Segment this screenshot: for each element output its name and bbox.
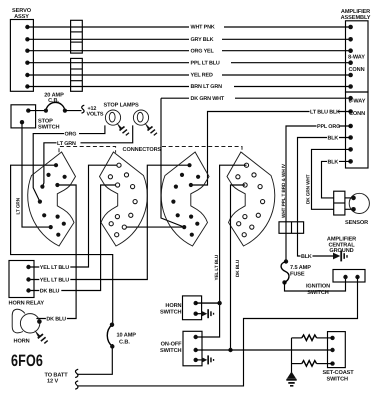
stop switch pin 1 <box>26 108 30 112</box>
svg-text:CONNECTORS: CONNECTORS <box>123 147 162 153</box>
circuit breaker CB1 20 AMP <box>44 93 67 113</box>
horn switch ground <box>196 309 215 318</box>
svg-text:IGNITION: IGNITION <box>306 284 330 290</box>
svg-text:YEL RED: YEL RED <box>191 73 213 79</box>
svg-text:CONN: CONN <box>348 67 364 73</box>
wire BLK: 6-way pin6 to sensor connector <box>322 158 351 198</box>
svg-text:SWITCH: SWITCH <box>307 290 329 296</box>
dashed leader line to CONNECTORS label (right segment) <box>162 147 242 153</box>
on-off switch box <box>160 331 202 366</box>
amplifier 8-way pin 1 <box>348 25 353 30</box>
junction: DK BLU to switch wire <box>228 348 232 352</box>
svg-text:SET-COAST: SET-COAST <box>323 370 355 376</box>
svg-text:DK GRN WHT: DK GRN WHT <box>191 96 225 102</box>
wire BRN LT GRN row6 <box>27 83 350 91</box>
servo pin 5 <box>25 73 29 77</box>
wire ignition switch pin2 to battery feed <box>78 277 358 386</box>
wire BLK: 6-way pin4 to amplifier central ground <box>298 134 351 260</box>
svg-text:8-WAY: 8-WAY <box>348 54 365 60</box>
svg-text:SWITCH: SWITCH <box>38 124 60 130</box>
set-coast switch box <box>323 332 355 383</box>
wire LT GRN: to stop lamp 2, branch down to connector <box>42 125 132 186</box>
battery feed squiggle (upper) <box>75 369 78 377</box>
wire horn circuit: connector 1 pin to horn <box>36 185 76 323</box>
svg-text:LT GRN: LT GRN <box>15 197 20 214</box>
connector C4 pins (sockets) <box>236 163 265 237</box>
stop lamp 1 ground <box>117 123 130 136</box>
amplifier 8-way pin 3 <box>348 48 353 53</box>
svg-text:ASSY: ASSY <box>14 14 29 20</box>
svg-text:PPL LT BLU: PPL LT BLU <box>191 60 220 66</box>
resistor R1 (set) <box>292 335 333 341</box>
svg-text:LT GRN: LT GRN <box>57 141 76 147</box>
wire set-coast ground bus <box>291 338 293 374</box>
amplifier 8-way pin 5 <box>348 73 353 78</box>
wire from left loop to connector 1 top pin (servo feed) <box>11 165 113 325</box>
wire DK GRN WHT branch down to connector 3 <box>161 98 184 227</box>
svg-text:DK BLU: DK BLU <box>46 317 66 323</box>
mid in-line connector (2 cells) on PPL ORG / BLK wires <box>279 222 304 234</box>
horn ground <box>35 330 48 343</box>
stop switch pin 2 <box>20 120 24 124</box>
resistor R2 (coast) <box>292 361 333 367</box>
svg-text:DK BLU: DK BLU <box>40 289 60 295</box>
connector C2 (steering column, female) <box>100 152 148 246</box>
svg-text:YEL LT BLU: YEL LT BLU <box>40 265 69 271</box>
amplifier 8-way pin 4 <box>348 60 353 65</box>
svg-text:YEL LT BLU: YEL LT BLU <box>40 278 69 284</box>
amplifier 6-way pin 5 <box>348 147 353 152</box>
set-coast ground <box>286 372 296 387</box>
ignition switch box <box>306 270 365 296</box>
svg-text:BLK: BLK <box>328 159 339 165</box>
servo pin 4 <box>25 61 29 65</box>
connector C3 (male) <box>161 152 209 246</box>
horn <box>12 309 42 344</box>
servo assembly box <box>10 8 33 91</box>
servo pin 1 <box>25 25 29 29</box>
svg-text:SWITCH: SWITCH <box>160 309 182 315</box>
svg-text:ORG: ORG <box>65 132 77 138</box>
amplifier 6-way pin 3 <box>348 124 353 129</box>
servo pin 2 <box>25 37 29 41</box>
svg-text:PPL ORG: PPL ORG <box>317 124 340 130</box>
wire ORG YEL row3 <box>27 47 350 55</box>
amplifier 6-way pin 2 <box>348 109 353 114</box>
amplifier 6-way pin 1 <box>348 96 353 101</box>
svg-text:STOP LAMPS: STOP LAMPS <box>104 103 140 109</box>
servo pin 6 <box>25 84 29 88</box>
wire on-off switch pin2 to set-coast switch <box>196 349 333 351</box>
wire stop switch to circuit breaker <box>28 110 46 112</box>
wire PPL LT BLU row4 <box>27 59 350 67</box>
wire 10 AMP CB to battery feed (upper) <box>78 325 113 375</box>
+12 VOLTS source tap <box>82 105 104 117</box>
amplifier 6-way pin 4 <box>348 135 353 140</box>
svg-text:HORN: HORN <box>165 303 181 309</box>
junction: horn switch tap <box>217 301 221 305</box>
in-line connector block 2 (3 cells) <box>71 58 83 91</box>
stop lamp 2 ground <box>145 123 158 136</box>
svg-text:BLK: BLK <box>301 254 312 260</box>
svg-text:DK BLU: DK BLU <box>235 259 240 277</box>
TO BATT label <box>45 373 69 385</box>
svg-text:7.5 AMP: 7.5 AMP <box>290 265 311 271</box>
svg-text:SWITCH: SWITCH <box>327 376 349 382</box>
wire YEL RED row5 <box>27 71 350 79</box>
svg-text:C.B.: C.B. <box>119 339 130 345</box>
amplifier 6-way pin 6 <box>348 159 353 164</box>
circuit breaker CB2 10 AMP <box>104 323 136 349</box>
connector C3 pins <box>171 163 200 237</box>
amplifier 8-way pin 2 <box>348 37 353 42</box>
amplifier 8-way pin 6 <box>348 84 353 89</box>
svg-text:12 V: 12 V <box>47 379 58 385</box>
battery feed squiggle (lower) <box>75 381 78 389</box>
stop lamp 1 <box>105 110 120 125</box>
svg-text:DK GRN WHT: DK GRN WHT <box>306 174 311 204</box>
horn switch box <box>160 296 202 320</box>
wire DK BLU: horn relay pin3 to connector 2 ring <box>29 185 118 295</box>
svg-text:WHT PNK: WHT PNK <box>191 25 215 31</box>
svg-text:YEL LT BLU: YEL LT BLU <box>214 254 219 280</box>
svg-text:WHT PPL T BRD & WH IV: WHT PPL T BRD & WH IV <box>281 163 286 218</box>
wire fuse to ignition switch pin1 <box>285 277 346 291</box>
svg-text:HORN: HORN <box>14 338 30 344</box>
svg-text:6FO6: 6FO6 <box>11 352 43 370</box>
wire LT GRN from stop switch down to connector 1 <box>13 122 50 227</box>
connector C1 pins <box>38 163 67 237</box>
dashed leader line to CONNECTORS label (left segment) <box>59 147 162 154</box>
wire YEL LT BLU: horn relay pin1 to connector 2 ring <box>29 165 119 271</box>
wire DK GRN WHT row7 <box>161 94 351 102</box>
wire sensor connector to sensor pin 1 <box>345 197 354 199</box>
wire circuit breaker to +12V tap <box>65 110 82 112</box>
svg-text:SWITCH: SWITCH <box>160 348 182 354</box>
wire: connector 2 ring to connector 3 pin (horn feed through) <box>124 226 184 228</box>
sensor U1 <box>345 193 369 226</box>
connector C1 (steering column, male) <box>28 152 76 246</box>
amplifier central ground label <box>327 237 356 255</box>
wire WHT PNK row1 <box>27 23 350 31</box>
stop switch box <box>11 105 60 131</box>
wire YEL LT BLU: connector 4 to horn switch and on-off switch <box>196 165 247 337</box>
svg-text:SENSOR: SENSOR <box>345 220 368 226</box>
fuse F1 7.5 AMP <box>281 259 311 284</box>
svg-text:GRY BLK: GRY BLK <box>191 37 214 43</box>
wire GRY BLK row2 <box>27 35 350 43</box>
svg-text:VOLTS: VOLTS <box>87 112 104 118</box>
stop lamp 2 <box>133 110 148 125</box>
sensor connector (2 cells) <box>334 191 345 215</box>
wire ORG: stop switch area to stop lamp 1, branch down to connector <box>33 125 105 201</box>
svg-text:ASSEMBLY: ASSEMBLY <box>341 15 371 21</box>
svg-text:HORN RELAY: HORN RELAY <box>9 301 45 307</box>
svg-text:ON-OFF: ON-OFF <box>161 341 183 347</box>
on-off switch ground <box>196 355 215 364</box>
svg-text:LT BLU BLK: LT BLU BLK <box>310 109 340 115</box>
wire horn switch pin1 to junction <box>196 302 220 304</box>
connector C4 (female) <box>227 152 275 246</box>
svg-text:ORG YEL: ORG YEL <box>191 48 215 54</box>
connector C2 pins (sockets) <box>108 163 137 237</box>
svg-text:FUSE: FUSE <box>290 272 305 278</box>
wire DK GRN WHT: 6-way pin5 to sensor connector <box>304 149 351 209</box>
wire YEL LT BLU: horn relay pin2 to connector 3 pin <box>29 165 190 284</box>
wire DK BLU: connector 4 to on-off switch middle wire <box>231 185 246 350</box>
wire sensor connector to sensor pin 2 <box>345 208 354 210</box>
in-line connector block 1 (3 cells) <box>71 20 83 53</box>
servo pin 3 <box>25 49 29 53</box>
wire PPL ORG: 6-way pin3 down to fuse <box>286 122 351 261</box>
svg-text:10 AMP: 10 AMP <box>117 332 137 338</box>
wire LT BLU BLK: 6-way pin2 to connector 3 <box>191 108 351 185</box>
svg-text:BLK: BLK <box>328 135 339 141</box>
amplifier central ground symbol <box>333 251 348 262</box>
svg-text:BRN LT GRN: BRN LT GRN <box>191 84 223 90</box>
horn relay box <box>9 261 45 307</box>
amplifier assembly box (8-way and 6-way connectors) <box>341 9 371 168</box>
